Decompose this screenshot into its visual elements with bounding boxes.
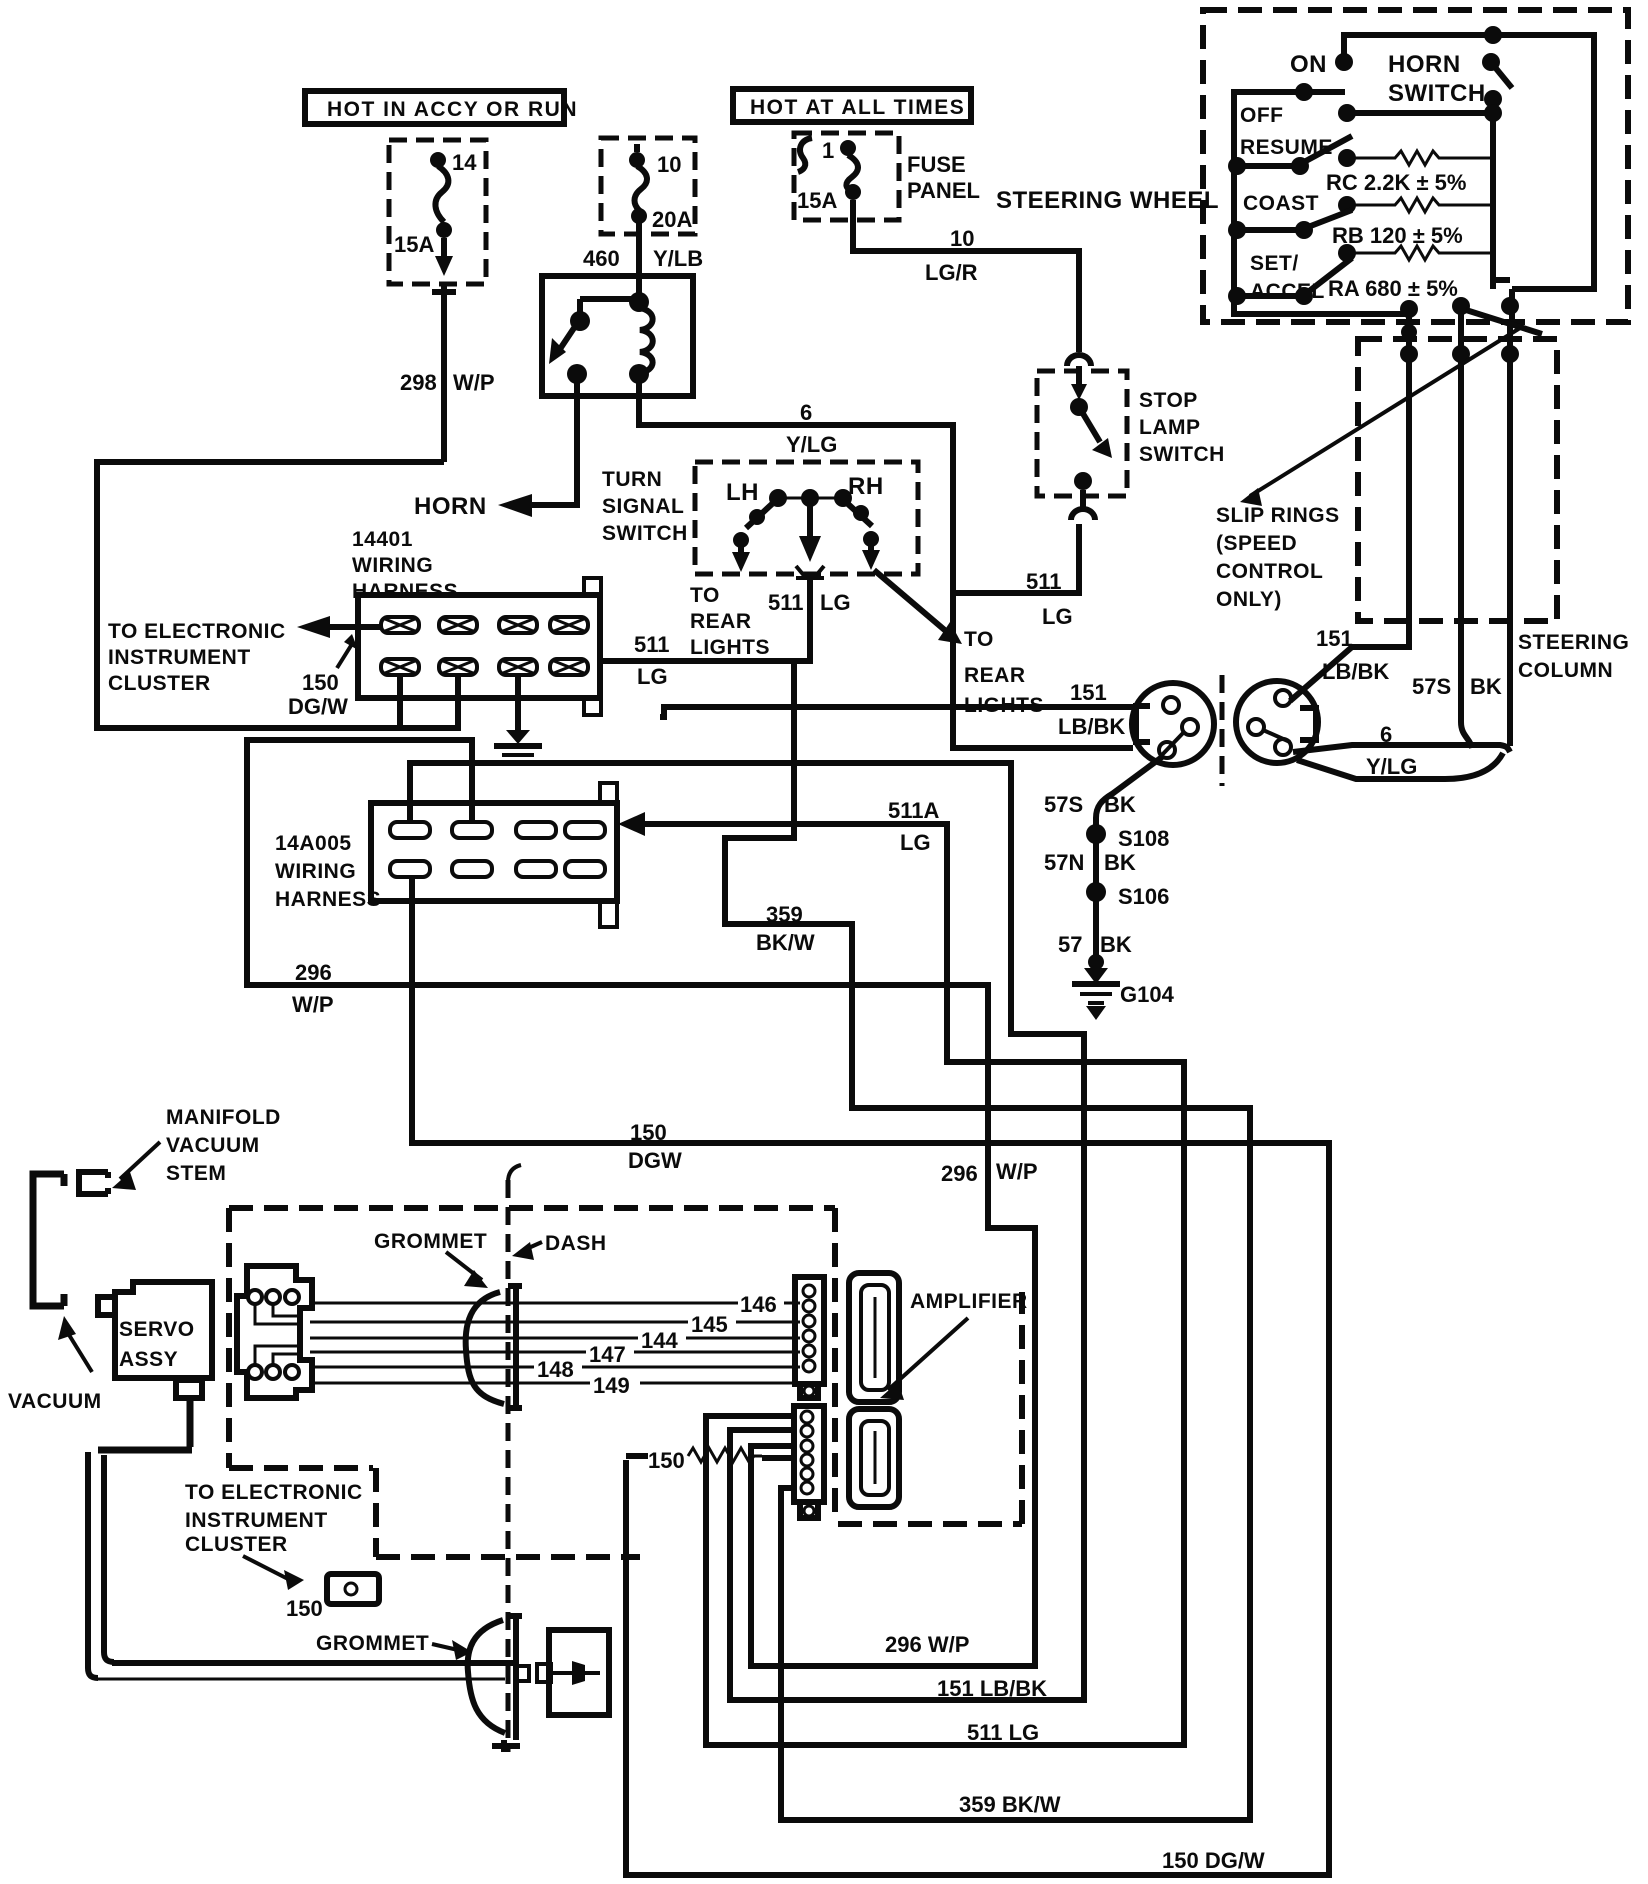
svg-text:57S: 57S	[1412, 674, 1451, 699]
svg-text:W/P: W/P	[292, 992, 334, 1017]
svg-text:511: 511	[768, 590, 804, 615]
diagonal to rear lights	[874, 570, 962, 644]
manifold arrow	[112, 1142, 160, 1190]
label STOP LAMP SWITCH	[1139, 389, 1225, 466]
svg-text:SWITCH: SWITCH	[1139, 443, 1225, 466]
svg-text:57S: 57S	[1044, 792, 1083, 817]
wire 151 LB/BK from 14A005 terminal up and right	[410, 763, 1084, 1700]
svg-text:LG: LG	[900, 830, 931, 855]
grommet cone upper	[466, 1292, 504, 1404]
amplifier component 2	[849, 1409, 899, 1507]
svg-text:FUSE: FUSE	[907, 152, 966, 177]
terminal	[452, 861, 492, 877]
svg-text:MANIFOLD: MANIFOLD	[166, 1106, 281, 1129]
svg-text:ACCEL: ACCEL	[1250, 280, 1325, 303]
grommet cone lower	[468, 1620, 505, 1733]
terminal	[516, 861, 556, 877]
label 10 LG/R	[925, 226, 978, 285]
servo assy box	[98, 1282, 212, 1378]
svg-text:HOT IN ACCY OR RUN: HOT IN ACCY OR RUN	[327, 98, 578, 121]
svg-text:SWITCH: SWITCH	[602, 522, 688, 545]
svg-text:20A: 20A	[652, 207, 692, 232]
label 298 W/P	[400, 370, 495, 395]
horn output row	[1338, 104, 1502, 289]
label TO ELECTRONIC INSTRUMENT CLUSTER (bottom)	[185, 1481, 363, 1556]
label 57S BK	[1412, 674, 1502, 699]
svg-text:10: 10	[950, 226, 974, 251]
terminal	[439, 659, 477, 675]
svg-text:TO ELECTRONIC: TO ELECTRONIC	[185, 1481, 363, 1504]
label FUSE PANEL	[907, 152, 980, 203]
wire 6 Y/LG band to C2	[1293, 745, 1510, 779]
svg-text:LG: LG	[820, 590, 851, 615]
svg-text:6: 6	[1380, 722, 1392, 747]
bottom right step	[1493, 253, 1512, 322]
center arrow down	[799, 505, 821, 562]
svg-text:LG: LG	[637, 664, 668, 689]
svg-text:DG/W: DG/W	[288, 694, 348, 719]
svg-text:HARNESS: HARNESS	[352, 580, 458, 603]
stop lamp switch dashed box	[1037, 371, 1127, 496]
OFF contact row	[1295, 83, 1313, 101]
label 296 W/P	[292, 960, 334, 1017]
svg-text:GROMMET: GROMMET	[374, 1230, 487, 1253]
svg-text:BK: BK	[1104, 850, 1136, 875]
LH switch chain	[732, 504, 772, 572]
svg-text:149: 149	[593, 1373, 630, 1398]
servo bottom tab	[176, 1380, 202, 1398]
amplifier connector upper	[795, 1277, 824, 1398]
wire 359 BK/W	[725, 664, 1250, 1820]
svg-text:Y/LG: Y/LG	[1366, 754, 1417, 779]
header box HOT IN ACCY OR RUN	[305, 91, 578, 124]
wire big left loop	[97, 462, 458, 728]
label 511A LG	[888, 798, 939, 855]
svg-text:HARNESS: HARNESS	[275, 888, 381, 911]
terminal	[439, 617, 477, 633]
column wires top dots	[1400, 345, 1519, 363]
label 151 LB/BK right	[1316, 626, 1389, 684]
label HORN SWITCH	[1388, 51, 1486, 107]
wire 146	[310, 1292, 800, 1317]
svg-text:LIGHTS: LIGHTS	[690, 636, 770, 659]
turn signal contacts	[769, 489, 852, 507]
svg-text:COAST: COAST	[1243, 192, 1319, 215]
grommet arrow lower	[432, 1640, 472, 1660]
label 511 LG	[1026, 569, 1073, 629]
terminal	[565, 822, 605, 838]
relay coil	[629, 292, 653, 384]
bolt box	[549, 1630, 609, 1715]
amplifier component 1	[849, 1273, 899, 1402]
svg-text:SWITCH: SWITCH	[1388, 80, 1486, 107]
grommet bracket lower	[492, 1616, 522, 1752]
svg-text:511: 511	[1026, 569, 1062, 594]
stop lamp switch contacts	[1070, 366, 1112, 490]
vacuum arrow	[58, 1316, 92, 1372]
grommet arrow upper	[446, 1252, 488, 1288]
svg-text:BK/W: BK/W	[756, 930, 815, 955]
stop lamp switch loop top	[1067, 355, 1091, 366]
labels 57 BK	[1058, 932, 1132, 957]
svg-text:DGW: DGW	[628, 1148, 682, 1173]
stub wires into lower connector	[706, 1416, 792, 1488]
set/accel switch arm	[1228, 258, 1352, 305]
wire 6 Y/LG through column	[1507, 322, 1513, 746]
label SLIP RINGS (SPEED CONTROL ONLY)	[1216, 504, 1340, 611]
svg-text:151: 151	[1316, 626, 1353, 651]
terminal	[381, 617, 419, 633]
wire 147	[310, 1342, 800, 1367]
vacuum stem fitting	[79, 1172, 108, 1194]
terminal	[499, 617, 537, 633]
inner switch box	[1234, 92, 1409, 314]
wire 511A LG with arrow into 14A005	[618, 812, 1184, 1745]
label 14401 WIRING HARNESS	[352, 528, 458, 603]
svg-text:150: 150	[302, 670, 339, 695]
fuse F3 symbol	[822, 138, 861, 200]
svg-text:151: 151	[1070, 680, 1107, 705]
svg-text:INSTRUMENT: INSTRUMENT	[108, 646, 251, 669]
horn arrow	[498, 494, 532, 517]
wire relay to horn	[532, 382, 577, 505]
svg-text:359: 359	[766, 902, 803, 927]
svg-text:COLUMN: COLUMN	[1518, 659, 1613, 682]
slip rings diagonal pointer	[1240, 328, 1520, 506]
svg-text:145: 145	[691, 1312, 728, 1337]
wire 151 through column	[1290, 314, 1409, 701]
wire 144	[310, 1328, 800, 1353]
arrow to instrument cluster	[297, 616, 381, 638]
svg-text:HORN: HORN	[1388, 51, 1461, 78]
RH switch chain	[848, 504, 880, 570]
svg-text:WIRING: WIRING	[275, 860, 356, 883]
svg-text:CLUSTER: CLUSTER	[108, 672, 211, 695]
svg-text:AMPLIFIER: AMPLIFIER	[910, 1290, 1028, 1313]
svg-text:S106: S106	[1118, 884, 1169, 909]
svg-text:Y/LG: Y/LG	[786, 432, 837, 457]
svg-text:151 LB/BK: 151 LB/BK	[937, 1676, 1047, 1701]
label SERVO ASSY	[119, 1318, 195, 1371]
svg-text:REAR: REAR	[690, 610, 752, 633]
header box HOT AT ALL TIMES	[733, 89, 971, 122]
labels 57S BK S108	[1044, 792, 1169, 851]
label 151 LB/BK	[1058, 680, 1125, 739]
wire 511 LG from stop lamp	[953, 524, 1079, 593]
cluster arrow	[243, 1556, 304, 1590]
fuse F1 dashed box	[389, 140, 486, 284]
svg-text:147: 147	[589, 1342, 626, 1367]
svg-text:57N: 57N	[1044, 850, 1084, 875]
svg-text:57: 57	[1058, 932, 1082, 957]
label 6 Y/LG	[1366, 722, 1417, 779]
fuse F2 symbol 20A	[629, 144, 647, 224]
terminal	[390, 822, 430, 838]
svg-text:TURN: TURN	[602, 468, 662, 491]
svg-text:VACUUM: VACUUM	[8, 1390, 102, 1413]
resume switch arm	[1228, 136, 1352, 175]
resistor 150 squiggle	[626, 1448, 792, 1473]
wire 151 LB/BK into C1	[660, 707, 1133, 717]
relay K1 box	[542, 276, 693, 396]
resistor RC row	[1338, 149, 1493, 167]
fuse F2 dashed box	[601, 138, 695, 234]
wires below 14401	[397, 675, 403, 728]
label 150 DGW	[628, 1120, 682, 1173]
dash arrow	[512, 1242, 542, 1260]
bolt	[537, 1661, 600, 1685]
coast switch arm	[1228, 210, 1352, 239]
terminal	[550, 659, 588, 675]
connector 14A005 body	[371, 783, 617, 927]
svg-text:HORN: HORN	[414, 493, 487, 520]
svg-text:STEERING WHEEL: STEERING WHEEL	[996, 187, 1219, 214]
wire 149	[310, 1373, 800, 1398]
label TO REAR LIGHTS (left)	[690, 584, 770, 659]
svg-text:SET/: SET/	[1250, 252, 1299, 275]
svg-text:296: 296	[941, 1161, 978, 1186]
svg-text:STEERING: STEERING	[1518, 631, 1629, 654]
svg-text:VACUUM: VACUUM	[166, 1134, 260, 1157]
amplifier arrow	[880, 1318, 968, 1400]
svg-text:150 DG/W: 150 DG/W	[1162, 1848, 1265, 1873]
svg-text:298: 298	[400, 370, 437, 395]
svg-text:511: 511	[634, 632, 670, 657]
connector 14401 body	[358, 578, 601, 715]
label 14A005 WIRING HARNESS	[275, 832, 381, 911]
svg-text:W/P: W/P	[453, 370, 495, 395]
svg-text:14A005: 14A005	[275, 832, 352, 855]
horn switch arm	[1482, 53, 1512, 108]
svg-text:144: 144	[641, 1328, 678, 1353]
wire 10 LG/R	[853, 200, 1079, 352]
svg-text:BK: BK	[1104, 792, 1136, 817]
svg-text:148: 148	[537, 1357, 574, 1382]
dashed separator between connectors	[1220, 675, 1225, 786]
svg-text:Y/LB: Y/LB	[653, 246, 703, 271]
svg-text:LB/BK: LB/BK	[1322, 659, 1389, 684]
svg-text:LB/BK: LB/BK	[1058, 714, 1125, 739]
resistor RA row	[1338, 244, 1493, 262]
wire 6 Y/LG relay to column	[639, 382, 1133, 748]
stop lamp bottom loop	[1071, 490, 1095, 520]
label MANIFOLD VACUUM STEM	[166, 1106, 281, 1185]
svg-text:GROMMET: GROMMET	[316, 1632, 429, 1655]
turn signal dashed box	[695, 462, 918, 574]
svg-text:6: 6	[800, 400, 812, 425]
svg-text:LAMP: LAMP	[1139, 416, 1201, 439]
label TO REAR LIGHTS (right)	[964, 628, 1044, 717]
fuse panel dashed box	[794, 133, 899, 220]
svg-text:ONLY): ONLY)	[1216, 588, 1282, 611]
svg-text:(SPEED: (SPEED	[1216, 532, 1297, 555]
servo connector pins	[248, 1290, 300, 1379]
svg-text:W/P: W/P	[996, 1159, 1038, 1184]
wire 460 Y/LB	[636, 222, 642, 300]
svg-text:OFF: OFF	[1240, 104, 1284, 127]
svg-text:296: 296	[295, 960, 332, 985]
label 511 LG (left wire)	[634, 632, 670, 689]
svg-text:1: 1	[822, 138, 834, 163]
terminal	[381, 659, 419, 675]
fork at box bottom	[796, 566, 824, 578]
wire stub through grommet	[517, 1666, 529, 1681]
vacuum bracket	[33, 1174, 64, 1306]
wire 296 W/P box	[247, 740, 1035, 1666]
svg-text:CONTROL: CONTROL	[1216, 560, 1323, 583]
amplifier dashed boundary	[835, 1208, 1022, 1524]
grommet bracket upper	[508, 1286, 522, 1408]
svg-text:BK: BK	[1470, 674, 1502, 699]
servo connector body	[237, 1266, 312, 1398]
svg-text:359 BK/W: 359 BK/W	[959, 1792, 1061, 1817]
svg-text:14: 14	[452, 150, 477, 175]
svg-text:ASSY: ASSY	[119, 1348, 178, 1371]
wire 511 LG to 14401	[601, 580, 810, 661]
svg-text:460: 460	[583, 246, 620, 271]
dash line vertical	[506, 1180, 511, 1752]
svg-text:CLUSTER: CLUSTER	[185, 1533, 288, 1556]
servo vacuum hose wires	[98, 1398, 192, 1450]
terminal	[516, 822, 556, 838]
fuse panel hook	[798, 138, 812, 172]
svg-text:150: 150	[630, 1120, 667, 1145]
label TURN SIGNAL SWITCH	[602, 468, 688, 545]
label SET/ACCEL	[1250, 252, 1325, 303]
label 296 W/P mid	[941, 1159, 1038, 1186]
svg-text:TO: TO	[964, 628, 994, 651]
wire 148	[310, 1357, 800, 1382]
svg-text:REAR: REAR	[964, 664, 1026, 687]
svg-text:296 W/P: 296 W/P	[885, 1632, 969, 1657]
terminal	[390, 861, 430, 877]
svg-text:10: 10	[657, 152, 681, 177]
svg-text:RB 120 ± 5%: RB 120 ± 5%	[1332, 223, 1463, 248]
svg-text:LG: LG	[1042, 604, 1073, 629]
connector C1 circle	[1132, 683, 1214, 765]
svg-text:LG/R: LG/R	[925, 260, 978, 285]
label 359 BK/W	[756, 902, 815, 955]
labels 511 LG inline	[768, 590, 851, 615]
terminal	[452, 822, 492, 838]
svg-text:INSTRUMENT: INSTRUMENT	[185, 1509, 328, 1532]
svg-text:G104: G104	[1120, 982, 1175, 1007]
connector C2 circle	[1236, 681, 1318, 763]
svg-text:STEM: STEM	[166, 1162, 226, 1185]
label 460 Y/LB	[583, 246, 703, 271]
svg-text:150: 150	[648, 1448, 685, 1473]
engine compartment dashed boundary	[229, 1208, 835, 1557]
wire 145	[310, 1312, 800, 1337]
ground below 14401	[494, 675, 542, 763]
svg-text:PANEL: PANEL	[907, 178, 980, 203]
svg-text:15A: 15A	[394, 232, 434, 257]
svg-text:RC 2.2K ± 5%: RC 2.2K ± 5%	[1326, 170, 1466, 195]
svg-text:WIRING: WIRING	[352, 554, 433, 577]
labels 57N BK S106	[1044, 850, 1169, 909]
svg-text:SERVO: SERVO	[119, 1318, 195, 1341]
svg-text:511 LG: 511 LG	[967, 1720, 1039, 1745]
wire 57S through column	[1461, 314, 1472, 748]
ON contact and top wire	[1335, 26, 1594, 289]
svg-text:DASH: DASH	[545, 1232, 607, 1255]
svg-text:15A: 15A	[797, 188, 837, 213]
svg-text:S108: S108	[1118, 826, 1169, 851]
terminal	[550, 617, 588, 633]
svg-text:150: 150	[286, 1596, 323, 1621]
label STEERING COLUMN	[1518, 631, 1629, 682]
svg-text:SLIP RINGS: SLIP RINGS	[1216, 504, 1340, 527]
ground G104	[1072, 954, 1120, 1020]
svg-text:LH: LH	[726, 479, 759, 506]
bottom junction dots	[1400, 297, 1542, 340]
steering wheel dashed box	[1203, 10, 1628, 322]
svg-text:14401: 14401	[352, 528, 413, 551]
resistor RB row	[1338, 196, 1493, 214]
wire 296 W/P from fuse down	[432, 284, 456, 462]
amplifier connector lower	[794, 1406, 824, 1518]
svg-text:SIGNAL: SIGNAL	[602, 495, 684, 518]
label TO ELECTRONIC INSTRUMENT CLUSTER	[108, 620, 286, 695]
svg-text:RH: RH	[848, 473, 884, 500]
slip rings dashed box	[1358, 339, 1557, 621]
svg-text:HOT AT ALL TIMES: HOT AT ALL TIMES	[750, 96, 965, 119]
svg-text:146: 146	[740, 1292, 777, 1317]
svg-text:511A: 511A	[888, 798, 939, 823]
terminal	[499, 659, 537, 675]
relay switch	[549, 299, 639, 384]
wire 57S BK chain to ground	[1086, 757, 1162, 958]
svg-text:TO: TO	[690, 584, 720, 607]
connector 150 eyelet	[327, 1574, 379, 1604]
svg-text:RA 680 ± 5%: RA 680 ± 5%	[1328, 276, 1458, 301]
label 150 DG/W with arrow	[288, 634, 358, 719]
fuse F1 symbol 15A	[430, 152, 453, 276]
svg-text:BK: BK	[1100, 932, 1132, 957]
svg-text:ON: ON	[1290, 51, 1327, 78]
wire 150 DG/W long loop	[412, 878, 1329, 1875]
label 6 Y/LG	[786, 400, 837, 457]
svg-text:STOP: STOP	[1139, 389, 1198, 412]
svg-text:TO ELECTRONIC: TO ELECTRONIC	[108, 620, 286, 643]
terminal	[565, 861, 605, 877]
